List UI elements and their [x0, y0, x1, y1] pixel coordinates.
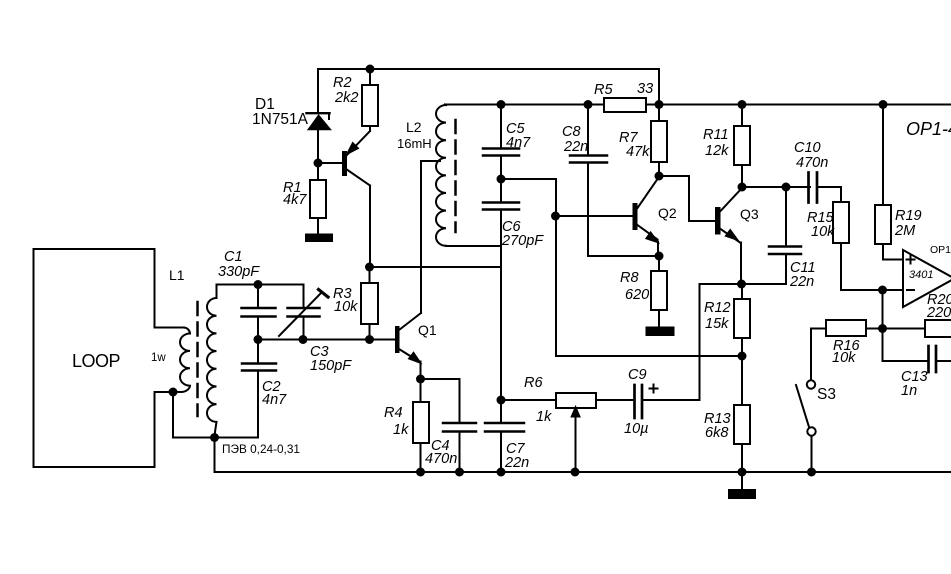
- svg-text:1N751A: 1N751A: [252, 111, 309, 128]
- svg-text:L2: L2: [406, 119, 422, 135]
- svg-text:16mH: 16mH: [397, 136, 432, 151]
- wire R11 top lead: [741, 105, 743, 127]
- wire C11 top vertical: [785, 187, 787, 247]
- ground under R1: [306, 235, 332, 242]
- wire minus node vertical: [882, 290, 884, 361]
- svg-text:10k: 10k: [334, 299, 358, 315]
- wire PEV horizontal y=437.5: [173, 437, 258, 439]
- wire R13 top lead: [741, 356, 743, 405]
- transistor Q1 emitter line: [399, 349, 419, 362]
- transistor PNP emitter line to R2: [346, 131, 370, 156]
- wire R2 bottom lead: [369, 126, 371, 131]
- wire primary bottom down: [172, 392, 174, 438]
- wire R16 right lead and R20 left lead: [866, 328, 925, 330]
- svg-text:C9: C9: [628, 367, 647, 383]
- node primary coil bottom junction: [169, 388, 178, 397]
- wire Q1 emitter to C4: [421, 378, 460, 380]
- wire D1 column top: [317, 69, 319, 113]
- capacitor C13 plates: [927, 346, 930, 372]
- svg-text:OP1: OP1: [930, 244, 951, 256]
- svg-text:R8: R8: [620, 270, 639, 286]
- node C7 bottom on bus: [497, 468, 506, 477]
- wire loop box to primary coil top: [155, 327, 185, 329]
- op-amp minus symbol: [907, 289, 914, 291]
- svg-text:1n: 1n: [901, 383, 917, 399]
- node Q1 emitter junction: [416, 375, 425, 384]
- wire R12 bottom lead: [741, 338, 743, 356]
- diode D1 zener triangle: [309, 116, 330, 130]
- resistor R19: [875, 205, 891, 244]
- transistor Q3 emitter line: [721, 229, 741, 243]
- capacitor C4 bottom lead: [459, 432, 461, 473]
- capacitor C9 plates: [633, 385, 636, 418]
- node S3 bottom on bus: [807, 468, 816, 477]
- wire R4 top lead: [420, 379, 422, 402]
- wire S3 bottom to bus: [811, 436, 813, 472]
- capacitor C2 plates: [242, 362, 276, 365]
- svg-text:22n: 22n: [789, 274, 814, 290]
- svg-text:C8: C8: [562, 124, 581, 140]
- resistor R5: [604, 98, 646, 112]
- wire Q1 collector vertical to L2 tap: [420, 161, 422, 313]
- node C1 top junction: [254, 280, 263, 289]
- wire R15 bottom lead: [840, 243, 842, 290]
- capacitor C5 plates: [483, 147, 519, 150]
- svg-text:22n: 22n: [504, 455, 529, 471]
- inductor L2 coil: [436, 105, 446, 246]
- wire R6 to C9: [596, 399, 634, 401]
- node Q2 collector junction: [655, 172, 664, 181]
- wire secondary bottom to ground bus: [214, 438, 216, 473]
- capacitor C3 arrow: [279, 292, 322, 336]
- wire Q1 emitter vertical: [420, 362, 422, 380]
- node secondary bottom junction: [210, 433, 219, 442]
- svg-text:3401: 3401: [909, 269, 933, 281]
- wire R13 bottom lead: [741, 444, 743, 472]
- resistor R1: [310, 180, 326, 218]
- wire to Q2 base: [556, 215, 634, 217]
- capacitor C4 plates: [443, 422, 476, 425]
- wire bottom ground bus y=472: [215, 471, 951, 473]
- transistor unlabeled PNP base bar: [342, 151, 347, 176]
- wire C8 bottom down: [587, 163, 589, 257]
- resistor R11: [734, 126, 750, 165]
- node C11 top tap: [782, 183, 791, 192]
- svg-text:ПЭВ 0,24-0,31: ПЭВ 0,24-0,31: [222, 442, 300, 456]
- node Q2 emitter junction: [655, 252, 664, 261]
- wire C5 to C6: [500, 156, 502, 203]
- op-amp U1 triangle: [903, 250, 951, 307]
- svg-text:10µ: 10µ: [624, 421, 648, 437]
- capacitor C7 plates: [485, 422, 524, 425]
- svg-text:S3: S3: [817, 386, 836, 403]
- wire R15 to op-amp minus input: [841, 289, 903, 291]
- capacitor C5 top lead: [500, 105, 502, 149]
- svg-text:33: 33: [637, 81, 653, 97]
- node C3 bottom junction: [299, 335, 308, 344]
- svg-text:4n7: 4n7: [506, 135, 531, 151]
- node R13 bottom on bus: [738, 468, 747, 477]
- svg-text:Q2: Q2: [658, 205, 677, 221]
- capacitor C3 bottom lead: [303, 317, 305, 340]
- transistor PNP collector line: [346, 169, 370, 186]
- node Q2 base tap: [551, 212, 560, 221]
- wire C11 bottom to Q3 emitter node: [700, 283, 787, 285]
- svg-text:R4: R4: [384, 405, 403, 421]
- node C1/C2 junction: [254, 335, 263, 344]
- capacitor C11 plates: [769, 245, 801, 248]
- svg-text:2M: 2M: [894, 223, 916, 239]
- wire midpoint to x=556: [501, 178, 556, 180]
- wire R12 top lead: [741, 284, 743, 299]
- svg-text:R2: R2: [333, 75, 352, 91]
- wire Q2 collector to Q3 base jog: [659, 176, 715, 221]
- transistor Q3 emitter arrow: [726, 230, 737, 239]
- transformer core dashed line: [196, 302, 199, 416]
- svg-text:220: 220: [926, 305, 951, 321]
- resistor R6 wiper arrow: [575, 415, 577, 472]
- node minus input junction: [878, 286, 887, 295]
- wire C6 bottom column down to C7: [500, 210, 502, 424]
- capacitor C8 plates: [570, 154, 607, 157]
- capacitor C6 plates: [483, 201, 519, 204]
- svg-text:Q3: Q3: [740, 206, 759, 222]
- svg-text:12k: 12k: [705, 143, 729, 159]
- capacitor C8 top lead: [587, 105, 589, 156]
- wire R11 bottom lead: [741, 165, 743, 187]
- transistor Q2 emitter line: [638, 225, 658, 240]
- svg-text:470n: 470n: [425, 451, 457, 467]
- svg-text:1k: 1k: [393, 422, 409, 438]
- svg-text:LOOP: LOOP: [72, 351, 121, 371]
- wire C11 bottom vertical: [785, 254, 787, 284]
- inductor L1 secondary coil: [207, 285, 217, 438]
- svg-text:OP1-4: OP1-4: [906, 119, 951, 139]
- node Q3 collector junction: [738, 183, 747, 192]
- wire R2 top lead: [369, 69, 371, 85]
- wire C10 to R15 top: [840, 187, 842, 202]
- svg-text:620: 620: [625, 287, 649, 303]
- capacitor C1 bottom lead: [257, 317, 259, 340]
- wire top supply y=69 from D1 column to x=659: [318, 68, 659, 70]
- node R12/R13 junction: [738, 352, 747, 361]
- svg-text:C1: C1: [224, 249, 243, 265]
- node R4 bottom on bus: [416, 468, 425, 477]
- wire R4 bottom lead: [420, 443, 422, 472]
- wire C13 right lead: [936, 360, 951, 362]
- diode D1 zener tail: [328, 114, 330, 119]
- wire R3 bottom lead: [369, 324, 371, 340]
- svg-text:2k2: 2k2: [334, 90, 358, 106]
- wire C10 right lead: [817, 186, 841, 188]
- capacitor C2 top lead: [257, 340, 259, 364]
- node Q3 emitter junction: [737, 280, 746, 289]
- resistor R7: [651, 121, 667, 162]
- wire C9 right lead: [642, 399, 700, 401]
- node C7/R6 junction: [497, 396, 506, 405]
- transistor Q3 collector line: [721, 189, 742, 212]
- resistor R13: [734, 405, 750, 444]
- op-amp plus symbol: [910, 256, 912, 264]
- transistor Q1 base bar: [395, 326, 400, 353]
- resistor R4: [413, 402, 429, 443]
- node R5/R7 junction on bus: [655, 100, 664, 109]
- wire loop box to primary bottom node: [155, 391, 174, 393]
- wire R19 bottom to plus input: [883, 244, 903, 260]
- LOOP antenna box L1: [34, 249, 155, 467]
- svg-text:1k: 1k: [536, 409, 552, 425]
- resistor R16: [826, 320, 866, 336]
- capacitor C9 plus sign: [653, 385, 655, 393]
- wire C13 left lead: [883, 360, 929, 362]
- node R3 top junction: [365, 263, 374, 272]
- wire L2 bottom to C6 column: [446, 245, 501, 247]
- wire vertical x=556: [555, 179, 557, 356]
- svg-text:R19: R19: [895, 208, 922, 224]
- capacitor C10 plates: [807, 173, 810, 203]
- transistor Q1 emitter arrow: [409, 353, 420, 363]
- svg-text:150pF: 150pF: [310, 358, 352, 374]
- wire secondary top to C1/C3 y=284.5: [217, 284, 304, 286]
- svg-text:22n: 22n: [563, 139, 588, 155]
- transistor PNP emitter arrow: [348, 143, 358, 153]
- svg-text:15k: 15k: [705, 316, 729, 332]
- capacitor C1 plates: [242, 307, 276, 310]
- svg-text:R11: R11: [703, 127, 729, 143]
- resistor R2: [362, 85, 378, 126]
- svg-text:270pF: 270pF: [501, 233, 544, 249]
- node R11 top on bus: [738, 100, 747, 109]
- transistor Q2 base bar: [633, 203, 638, 230]
- resistor R12: [734, 299, 750, 338]
- svg-text:R5: R5: [594, 82, 613, 98]
- wire C8 to Q2 emitter: [588, 255, 659, 257]
- wire base wire to PNP transistor: [318, 162, 342, 164]
- wire main bus y=104.5 left of R5: [445, 104, 604, 106]
- wire Q2 emitter vertical: [657, 242, 659, 257]
- svg-text:R6: R6: [524, 375, 543, 391]
- resistor R6 potentiometer body: [556, 393, 596, 408]
- node C5 top on bus: [497, 100, 506, 109]
- transistor Q1 collector line: [399, 313, 421, 330]
- ground main below bus: [741, 472, 743, 490]
- diode D1 zener cathode bar: [307, 112, 330, 114]
- resistor R8: [651, 271, 667, 310]
- svg-text:R12: R12: [704, 300, 731, 316]
- svg-text:Q1: Q1: [418, 322, 437, 338]
- switch S3 top wire from R16: [811, 329, 826, 380]
- capacitor C3 top lead: [303, 285, 305, 309]
- svg-text:330pF: 330pF: [218, 264, 260, 280]
- wire x=556 bottom to R12/R13 junction: [556, 355, 742, 357]
- node R19 top on bus: [879, 100, 888, 109]
- wire main bus y=104.5 right of R5: [646, 104, 951, 106]
- node C4 bottom on bus: [455, 468, 464, 477]
- wire PNP collector to C6 column y=267: [370, 266, 501, 268]
- resistor R3: [361, 283, 378, 324]
- capacitor C2 bottom lead: [257, 371, 259, 438]
- transistor Q2 collector line: [638, 178, 659, 209]
- wire R1 bottom lead: [317, 218, 319, 235]
- wire L2 tap horizontal: [421, 160, 440, 162]
- svg-text:10k: 10k: [832, 350, 856, 366]
- wire R8 top lead: [658, 256, 660, 271]
- wire C9 up to Q3 emitter node: [699, 284, 701, 400]
- svg-text:4n7: 4n7: [262, 392, 287, 408]
- wire R19 top lead: [882, 105, 884, 206]
- capacitor C4 top lead: [459, 379, 461, 423]
- svg-text:C10: C10: [794, 140, 821, 156]
- wire junction to R6: [501, 399, 556, 401]
- wire Q3 collector node to C10: [742, 186, 810, 188]
- svg-text:4k7: 4k7: [283, 192, 307, 208]
- switch S3 top contact: [807, 380, 815, 388]
- node D1/R1/base junction: [314, 159, 323, 168]
- node C8 top on bus: [584, 100, 593, 109]
- node R2 top junction: [366, 65, 375, 74]
- svg-text:470n: 470n: [796, 155, 828, 171]
- transistor Q3 base bar: [715, 207, 721, 235]
- svg-text:L1: L1: [169, 267, 185, 283]
- wire R3 top lead: [369, 267, 371, 283]
- inductor L2 core dashed line: [454, 120, 457, 232]
- wire R7 bottom lead: [658, 162, 660, 176]
- wire R8 bottom lead: [658, 310, 660, 328]
- wire vertical x=659 from top wire through bus to R7: [658, 69, 660, 121]
- node R16/R20 junction: [878, 324, 887, 333]
- wire Q1 base y=339.5: [258, 339, 395, 341]
- capacitor C7 bottom lead: [500, 432, 502, 473]
- switch S3 lever: [796, 385, 809, 427]
- wire R1 top lead: [317, 163, 319, 180]
- wire Q3 emitter vertical: [740, 243, 742, 285]
- wire L2 top to bus: [445, 104, 446, 107]
- svg-text:6k8: 6k8: [705, 425, 728, 441]
- resistor R20 (cut at edge): [925, 320, 951, 337]
- node R3 bottom junction: [365, 335, 374, 344]
- switch S3 bottom contact: [807, 427, 815, 435]
- wire D1 anode to node: [317, 130, 319, 164]
- capacitor C1 top lead: [257, 285, 259, 309]
- transistor Q2 emitter arrow: [647, 233, 658, 242]
- node R6 wiper on bus: [571, 468, 580, 477]
- node C5/C6 midpoint: [497, 175, 506, 184]
- resistor R15: [833, 202, 849, 243]
- svg-text:47k: 47k: [626, 144, 650, 160]
- ground under R8: [647, 328, 674, 336]
- svg-text:10k: 10k: [811, 224, 835, 240]
- wire PNP collector vertical: [369, 186, 371, 268]
- svg-text:1w: 1w: [151, 352, 166, 364]
- inductor L1 primary coil: [173, 328, 190, 393]
- capacitor C3 variable plates: [288, 307, 320, 310]
